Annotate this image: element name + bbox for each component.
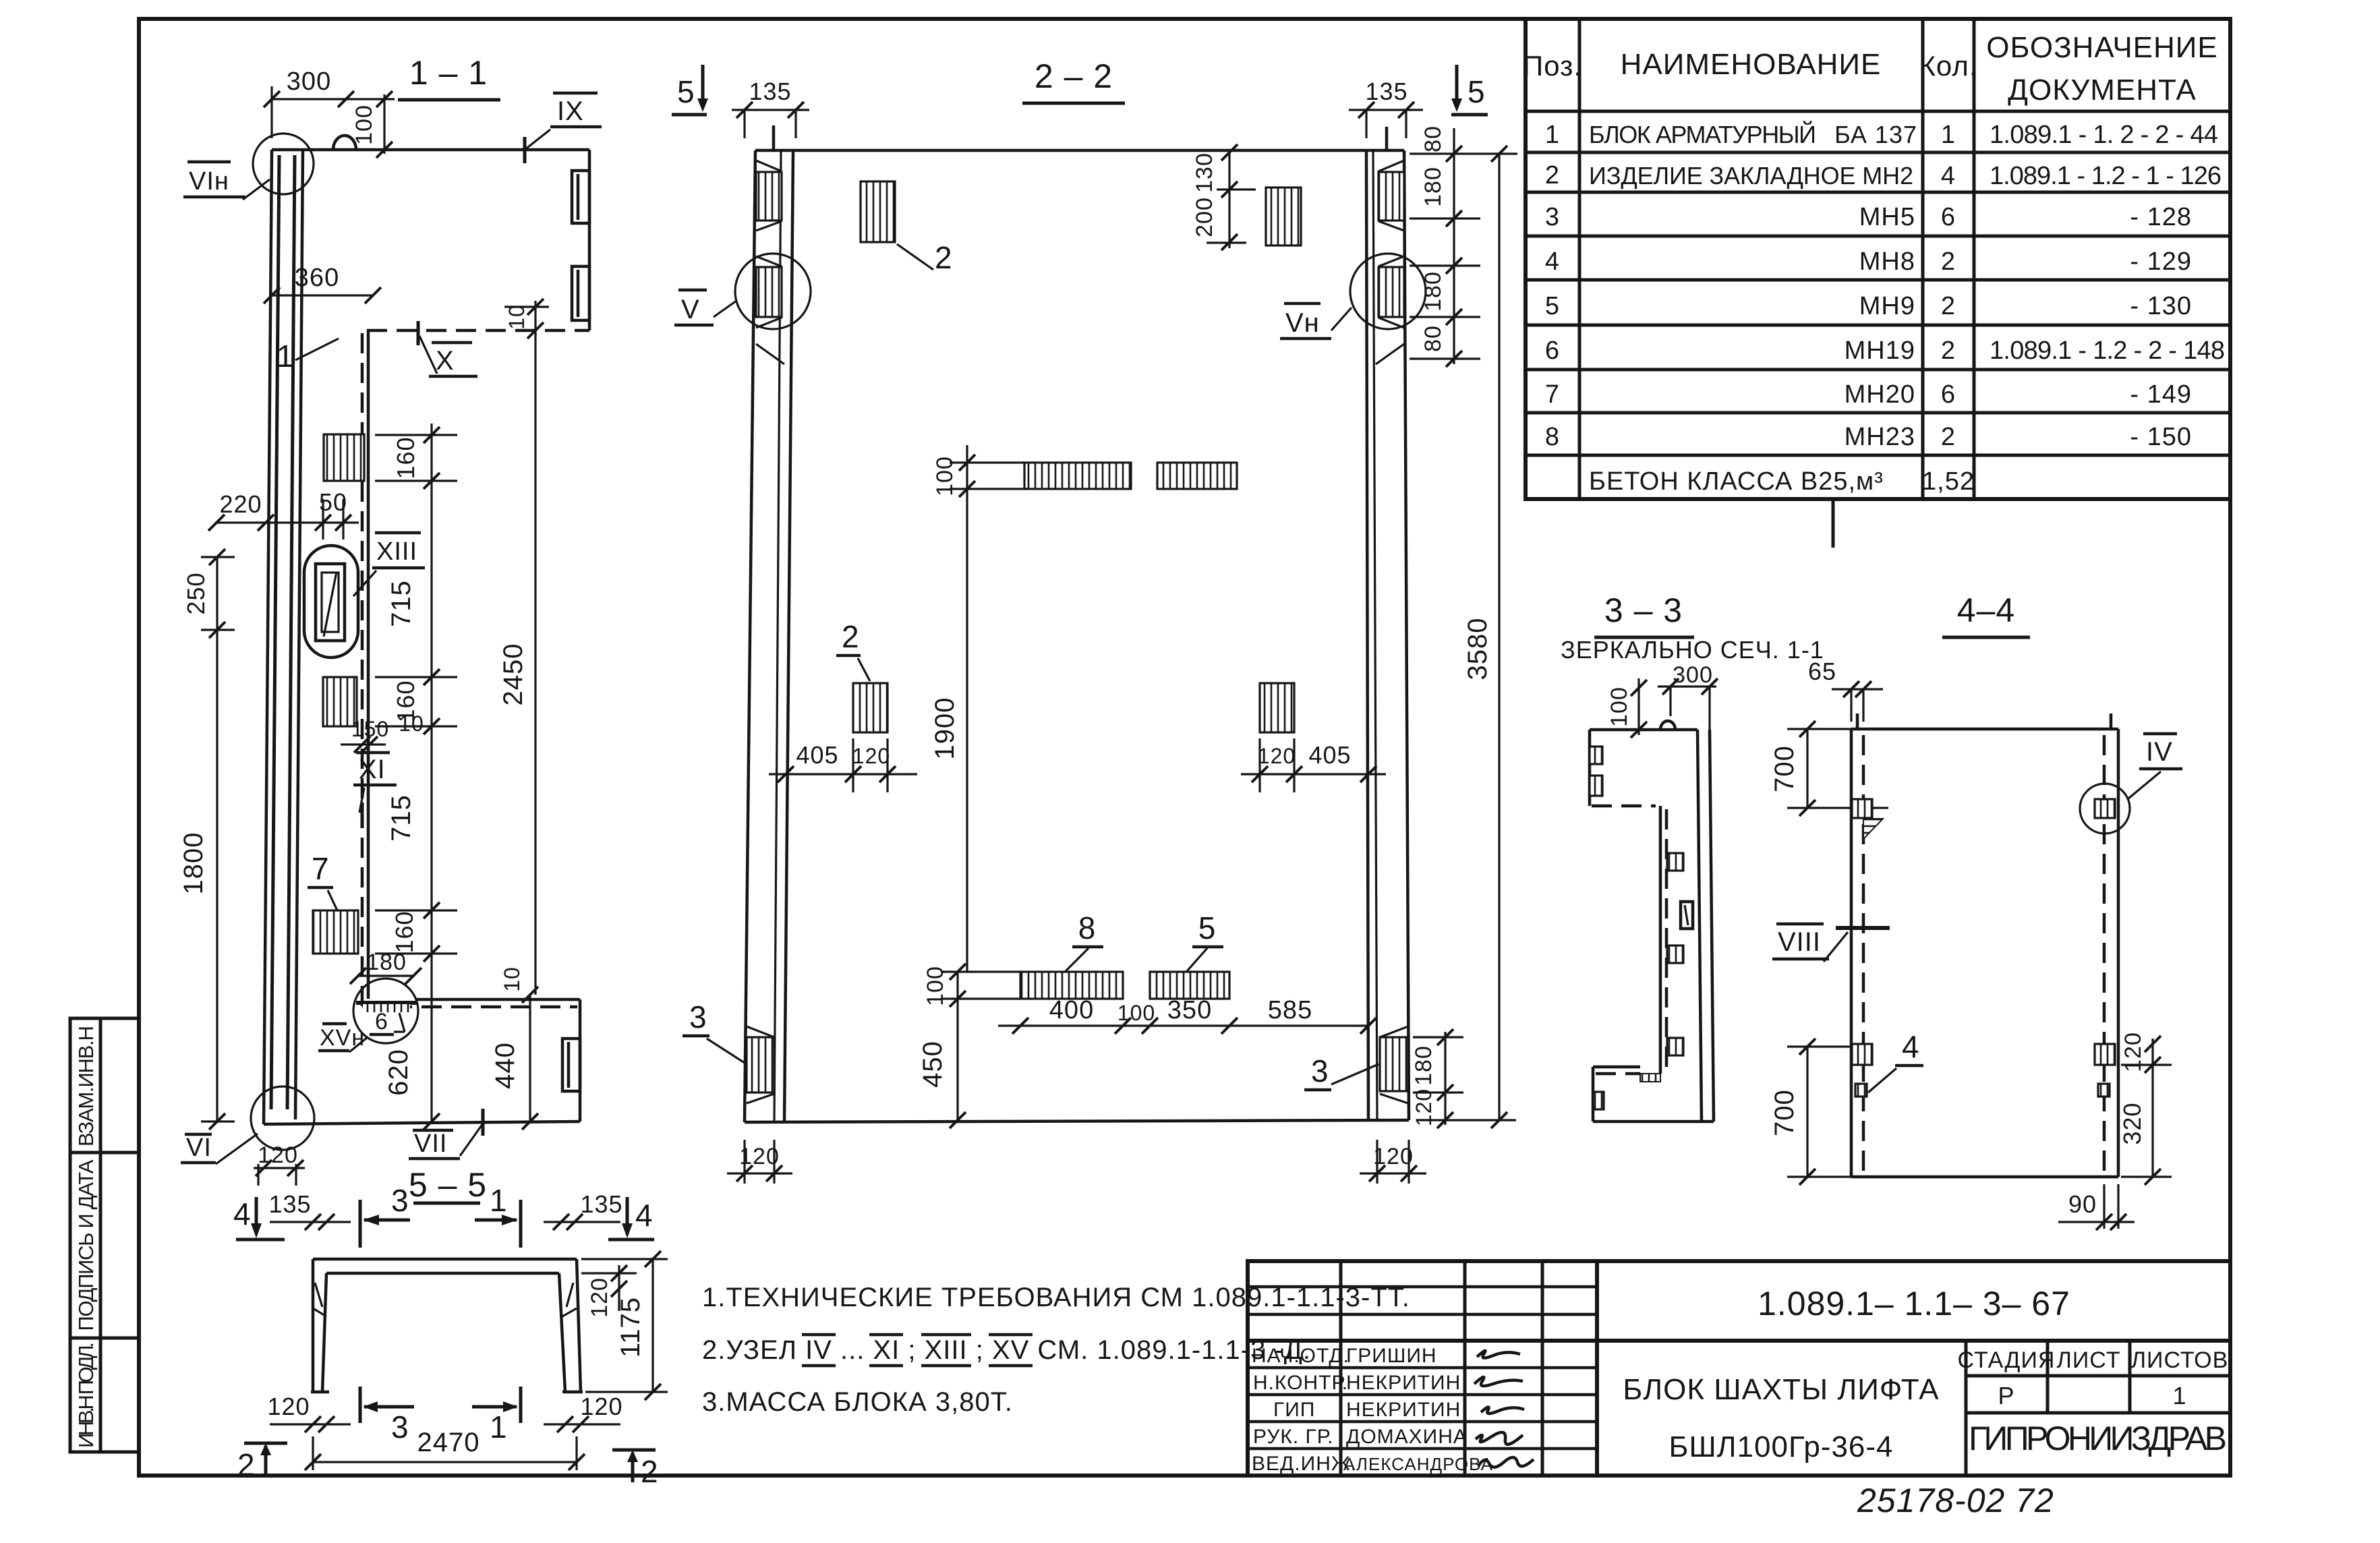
node label IV <box>2143 732 2177 736</box>
groove 3 bottom right <box>562 1039 580 1091</box>
svg-text:80: 80 <box>1420 325 1446 352</box>
svg-text:1900: 1900 <box>930 697 960 760</box>
svg-text:2: 2 <box>935 240 953 275</box>
svg-text:НАИМЕНОВАНИЕ: НАИМЕНОВАНИЕ <box>1621 48 1882 81</box>
svg-text:8: 8 <box>1545 423 1560 451</box>
svg-text:2450: 2450 <box>498 643 528 706</box>
svg-text:1: 1 <box>490 1409 508 1445</box>
step dashed vertical <box>1665 809 1668 1074</box>
svg-text:ИЗДЕЛИЕ ЗАКЛАДНОЕ МН2: ИЗДЕЛИЕ ЗАКЛАДНОЕ МН2 <box>1589 162 1914 190</box>
node label Vн <box>1284 302 1320 305</box>
svg-text:ВЗАМ.ИНВ.Н: ВЗАМ.ИНВ.Н <box>74 1025 98 1146</box>
svg-text:1800: 1800 <box>179 832 208 895</box>
svg-text:6: 6 <box>375 1009 388 1035</box>
svg-text:XIII: XIII <box>376 537 417 566</box>
svg-text:7: 7 <box>1545 380 1560 409</box>
section mark 1 bottom <box>519 1387 523 1423</box>
svg-text:Р: Р <box>1998 1382 2014 1409</box>
right leg bottom <box>562 1391 583 1394</box>
dim 700 bottom <box>1806 1047 1808 1177</box>
rebar pin right <box>2110 714 2113 728</box>
step solid vertical <box>1659 806 1662 1074</box>
svg-text:700: 700 <box>1770 1089 1799 1136</box>
right wall outer line <box>1404 150 1409 1120</box>
node label XVн <box>322 1022 347 1026</box>
svg-text:180: 180 <box>1411 1045 1436 1086</box>
dim 250 <box>216 557 218 630</box>
dim 135 left <box>732 109 809 111</box>
svg-text:- 130: - 130 <box>2130 292 2192 320</box>
svg-text:АЛЕКСАНДРОВА: АЛЕКСАНДРОВА <box>1343 1454 1493 1474</box>
svg-text:ПОДПИСЬ И ДАТА: ПОДПИСЬ И ДАТА <box>74 1159 98 1331</box>
svg-text:440: 440 <box>490 1042 520 1089</box>
hidden face dashed top <box>367 329 589 332</box>
svg-text:БШЛ100Гр-36-4: БШЛ100Гр-36-4 <box>1668 1430 1893 1463</box>
dim 100 <box>1637 678 1639 735</box>
rebar pin left <box>1856 714 1859 728</box>
svg-text:65: 65 <box>1808 658 1836 685</box>
svg-text:3: 3 <box>391 1183 409 1218</box>
svg-text:3 – 3: 3 – 3 <box>1604 591 1683 629</box>
node label VII <box>413 1129 453 1132</box>
dim 120 405 right <box>1241 773 1386 775</box>
dim 65 <box>1832 688 1883 690</box>
section mark 2 bottom left <box>244 1442 287 1445</box>
svg-text:2: 2 <box>1941 337 1956 365</box>
svg-text:405: 405 <box>796 741 838 769</box>
svg-text:100: 100 <box>923 966 948 1006</box>
svg-text:1: 1 <box>2172 1382 2186 1409</box>
svg-text:6: 6 <box>1545 337 1560 365</box>
svg-text:2: 2 <box>1941 248 1956 276</box>
svg-text:1: 1 <box>1545 121 1560 149</box>
svg-text:450: 450 <box>918 1041 948 1088</box>
left wall bottom plate <box>747 1037 774 1093</box>
right leg inner <box>559 1273 565 1392</box>
dim 120 under left wall <box>743 1140 745 1184</box>
bottom flange hatch strip <box>1640 1074 1660 1082</box>
dim 360 <box>272 294 373 296</box>
svg-text:2 – 2: 2 – 2 <box>1035 57 1113 95</box>
hidden dashed bottom <box>362 1006 577 1009</box>
svg-text:5: 5 <box>1468 74 1486 109</box>
svg-text:220: 220 <box>219 490 262 518</box>
svg-text:1.ТЕХНИЧЕСКИЕ ТРЕБОВАНИЯ СМ 1.: 1.ТЕХНИЧЕСКИЕ ТРЕБОВАНИЯ СМ 1.089.1-1.1-… <box>702 1283 1410 1312</box>
embedded plate right middle <box>1260 683 1294 732</box>
svg-text:180: 180 <box>1420 167 1446 207</box>
svg-text:120: 120 <box>258 1142 298 1168</box>
svg-text:100: 100 <box>1606 687 1632 727</box>
node label X <box>432 341 472 345</box>
svg-text:3580: 3580 <box>1463 618 1492 680</box>
dim 90 bottom <box>2103 1184 2105 1229</box>
svg-text:120: 120 <box>852 744 890 768</box>
dim 120 bottom left <box>270 1423 351 1425</box>
dim 100 upper <box>950 461 1024 463</box>
svg-text:ГИПРОНИИЗДРАВ: ГИПРОНИИЗДРАВ <box>1969 1420 2228 1457</box>
svg-text:XI: XI <box>359 755 386 784</box>
svg-text:120: 120 <box>1373 1144 1414 1169</box>
groove 2 left edge <box>1590 776 1602 796</box>
groove 1 left edge <box>1590 747 1602 764</box>
dim 120 bottom right <box>544 1423 620 1425</box>
svg-text:1.089.1 - 1. 2 - 2 - 44: 1.089.1 - 1. 2 - 2 - 44 <box>1990 121 2219 149</box>
svg-text:3: 3 <box>1545 203 1560 231</box>
dim 100 vertical <box>346 98 395 100</box>
upper anchor strips <box>1024 463 1131 489</box>
right edge of top beam <box>588 150 591 330</box>
svg-text:3: 3 <box>391 1409 409 1445</box>
top face line <box>1851 728 2118 731</box>
svg-text:2: 2 <box>641 1454 659 1489</box>
svg-text:80: 80 <box>1420 125 1446 152</box>
dim 300 <box>272 98 346 100</box>
svg-text:2470: 2470 <box>417 1428 480 1457</box>
dim 135 top right <box>544 1221 620 1223</box>
title block bottom right <box>1248 1261 2230 1476</box>
svg-text:2.УЗЕЛ IV ... XI ; XIII ; XV С: 2.УЗЕЛ IV ... XI ; XIII ; XV СМ. 1.089.1… <box>702 1335 1311 1365</box>
left wall plate МН circled <box>756 267 782 317</box>
left wall rebar pin <box>772 125 776 150</box>
svg-text:1: 1 <box>1941 121 1956 149</box>
svg-text:НЕКРИТИН: НЕКРИТИН <box>1346 1372 1461 1394</box>
dim 700 top <box>1806 729 1808 808</box>
embedded plate top right <box>1266 187 1301 245</box>
embedded plate block 2 <box>323 677 357 726</box>
dim 200/130 <box>1228 150 1230 248</box>
svg-text:1.089.1 - 1.2 - 2 - 148: 1.089.1 - 1.2 - 2 - 148 <box>1990 337 2226 365</box>
plate on left wall bottom <box>1852 1044 1872 1065</box>
svg-text:120: 120 <box>267 1393 310 1420</box>
right wall inner line <box>1366 150 1368 1120</box>
right wall plate МН circled <box>1378 267 1404 317</box>
svg-text:1 – 1: 1 – 1 <box>409 54 488 92</box>
left edge top beam <box>1588 730 1592 806</box>
top face line <box>755 149 1404 152</box>
svg-text:МН5: МН5 <box>1859 203 1915 231</box>
svg-text:1175: 1175 <box>616 1297 645 1358</box>
svg-text:620: 620 <box>384 1049 413 1096</box>
left leg outer <box>312 1259 315 1392</box>
svg-text:350: 350 <box>1167 996 1212 1024</box>
right wall bottom plate <box>1380 1037 1408 1091</box>
left wall outer line <box>264 150 272 1124</box>
svg-text:4: 4 <box>1902 1029 1920 1064</box>
hidden dashed vertical <box>361 333 364 1009</box>
beam hidden bottom dashed <box>1592 805 1656 808</box>
svg-text:1,52: 1,52 <box>1922 467 1975 496</box>
svg-text:135: 135 <box>268 1190 311 1218</box>
right wall plate МН top <box>1378 172 1404 221</box>
node label XI <box>356 751 390 755</box>
left wall plate МН top <box>756 172 782 221</box>
svg-text:ИНВ.Н ПОДЛ.: ИНВ.Н ПОДЛ. <box>74 1341 98 1448</box>
section mark 1 top <box>519 1200 523 1248</box>
svg-text:Кол.: Кол. <box>1919 50 1977 82</box>
top-left detail circle <box>253 134 314 194</box>
left wall dashed line <box>1862 735 1865 1173</box>
node label XIII <box>375 531 421 535</box>
svg-text:10: 10 <box>504 304 529 330</box>
node label VIн <box>187 161 231 164</box>
detail circle Vн <box>1350 254 1426 329</box>
svg-text:ДОКУМЕНТА: ДОКУМЕНТА <box>2008 74 2197 107</box>
section mark 3 bottom <box>359 1387 362 1423</box>
notes <box>702 1283 1410 1417</box>
section mark 2 bottom right <box>612 1449 656 1452</box>
dim 180 120 bottom right <box>1444 1032 1446 1125</box>
dim 1800 <box>216 630 218 1122</box>
svg-text:135: 135 <box>749 78 791 105</box>
svg-text:100: 100 <box>1118 1001 1155 1025</box>
svg-text:135: 135 <box>1365 78 1407 105</box>
svg-text:- 128: - 128 <box>2130 203 2192 231</box>
svg-text:120: 120 <box>1258 744 1296 768</box>
left leg chamfer mark <box>315 1283 322 1307</box>
top face line <box>272 148 589 152</box>
svg-text:715: 715 <box>386 580 416 627</box>
svg-text:IV: IV <box>2146 737 2173 767</box>
svg-text:1: 1 <box>277 339 295 374</box>
svg-text:4–4: 4–4 <box>1957 591 2015 629</box>
left wall outer line <box>745 150 755 1122</box>
bottom face line <box>1851 1175 2118 1179</box>
svg-text:МН8: МН8 <box>1859 248 1915 276</box>
svg-text:320: 320 <box>2118 1102 2146 1144</box>
svg-text:4: 4 <box>1545 248 1560 276</box>
svg-text:X: X <box>436 346 455 376</box>
svg-text:2: 2 <box>1545 161 1560 190</box>
svg-text:- 150: - 150 <box>2130 423 2192 451</box>
svg-text:XVн: XVн <box>320 1025 365 1051</box>
svg-text:МН9: МН9 <box>1859 292 1915 320</box>
svg-text:ГИП: ГИП <box>1273 1399 1315 1421</box>
dim 120 320 right <box>2151 1039 2153 1177</box>
embedded plate 2 middle <box>853 683 888 732</box>
right wall middle line <box>1373 150 1377 1120</box>
detail circle XVn with plate 6 <box>353 979 418 1043</box>
dim 120 right small <box>618 1265 620 1311</box>
right wall inner line <box>1697 730 1702 1122</box>
left wall inner line <box>295 150 303 1119</box>
bottom face line <box>745 1120 1409 1122</box>
svg-text:VI: VI <box>186 1134 212 1162</box>
svg-text:2: 2 <box>1941 292 1956 320</box>
dim chain 160/715 <box>430 424 432 1122</box>
dim 450 <box>950 1112 966 1128</box>
svg-text:4: 4 <box>233 1196 252 1231</box>
left wall middle line <box>774 150 781 1122</box>
svg-text:90: 90 <box>2068 1190 2097 1218</box>
svg-text:715: 715 <box>386 794 416 842</box>
svg-text:РУК. ГР.: РУК. ГР. <box>1253 1426 1333 1448</box>
dim 300 <box>1658 685 1716 687</box>
channel outer top <box>313 1258 577 1261</box>
bottom-left detail circle <box>251 1086 314 1150</box>
svg-text:4: 4 <box>635 1198 654 1233</box>
svg-text:700: 700 <box>1770 745 1799 792</box>
groove 1 on right edge <box>572 171 589 223</box>
left wall rail line a <box>271 155 279 1109</box>
top face line <box>1590 728 1697 732</box>
svg-text:ГРИШИН: ГРИШИН <box>1346 1345 1437 1367</box>
bottom beam top face <box>415 998 580 1001</box>
slot XIII mirrored <box>1681 902 1693 929</box>
detail circle V <box>735 254 811 329</box>
groove 2 on right edge <box>572 266 589 320</box>
svg-text:6: 6 <box>1941 203 1956 231</box>
section mark 4 top right <box>626 1197 629 1231</box>
svg-text:Поз.: Поз. <box>1523 50 1582 82</box>
svg-text:IX: IX <box>557 96 584 126</box>
right wall solid line <box>2117 729 2120 1177</box>
dim 10 top <box>504 305 549 308</box>
embedded plate 2 top <box>861 181 895 242</box>
step plate 1 <box>1667 853 1683 871</box>
svg-text:300: 300 <box>287 67 331 96</box>
svg-text:120: 120 <box>739 1144 780 1169</box>
svg-text:400: 400 <box>1049 996 1094 1024</box>
plate on right wall bottom <box>2095 1044 2115 1065</box>
dim 120 under right wall <box>1376 1140 1378 1184</box>
svg-text:5: 5 <box>1545 292 1560 320</box>
dim 3580 <box>1498 154 1500 1120</box>
dim 220 and 50 <box>215 521 359 523</box>
plate on left wall top <box>1852 799 1872 818</box>
dim 180 bottom <box>358 974 413 977</box>
svg-text:ВЕД.ИНЖ.: ВЕД.ИНЖ. <box>1252 1453 1357 1475</box>
svg-text:2: 2 <box>237 1447 256 1482</box>
right leg chamfer mark <box>567 1283 573 1307</box>
svg-text:160: 160 <box>390 910 418 953</box>
stadium slot XIII <box>304 546 358 658</box>
bottom face line <box>264 1122 580 1124</box>
right wall rebar pin <box>1385 127 1389 150</box>
svg-text:VIн: VIн <box>189 167 229 196</box>
bottom beam right edge <box>579 999 582 1122</box>
svg-text:3: 3 <box>1311 1053 1329 1088</box>
bottom flange top face <box>1593 1066 1640 1069</box>
svg-text:120: 120 <box>580 1393 622 1420</box>
svg-text:7: 7 <box>312 851 330 886</box>
svg-text:- 149: - 149 <box>2130 380 2192 409</box>
svg-text:3: 3 <box>689 999 707 1035</box>
dim 100 lower <box>941 970 1020 972</box>
svg-text:120: 120 <box>2120 1032 2146 1072</box>
dim 135 top left <box>270 1221 351 1223</box>
svg-text:2: 2 <box>842 619 860 654</box>
svg-text:VIII: VIII <box>1778 927 1821 957</box>
left wall solid line <box>1850 729 1853 1177</box>
step plate 2 <box>1667 945 1683 963</box>
svg-text:1.089.1– 1.1– 3– 67: 1.089.1– 1.1– 3– 67 <box>1758 1285 2070 1322</box>
left leg bottom <box>311 1391 329 1394</box>
svg-text:250: 250 <box>182 572 210 614</box>
node label IX <box>553 92 598 95</box>
svg-text:360: 360 <box>295 264 339 292</box>
right wall outer line <box>1710 730 1714 1122</box>
svg-text:4: 4 <box>1941 162 1956 190</box>
dims 400 100 350 585 <box>998 1024 1368 1026</box>
dim 1175 <box>651 1259 654 1392</box>
svg-text:180: 180 <box>366 950 407 975</box>
plate on right wall top circled <box>2095 799 2115 818</box>
bottom face line <box>1593 1120 1714 1124</box>
svg-text:100: 100 <box>932 456 958 496</box>
svg-text:V: V <box>681 295 700 324</box>
svg-text:МН20: МН20 <box>1845 380 1915 409</box>
svg-text:ДОМАХИНА: ДОМАХИНА <box>1346 1426 1468 1448</box>
svg-text:180: 180 <box>1420 271 1446 312</box>
svg-text:БЛОК АРМАТУРНЫЙ: БЛОК АРМАТУРНЫЙ <box>1589 120 1817 148</box>
left wall rail line b <box>287 155 295 1109</box>
dim 1900 <box>966 445 968 972</box>
svg-text:НЕКРИТИН: НЕКРИТИН <box>1346 1399 1461 1421</box>
svg-text:585: 585 <box>1268 996 1312 1024</box>
svg-text:БЛОК ШАХТЫ ЛИФТА: БЛОК ШАХТЫ ЛИФТА <box>1623 1373 1939 1406</box>
lower anchor strips 8 and 5 <box>1020 972 1123 999</box>
embedded plate block 1 <box>324 434 364 481</box>
left leg inner <box>322 1273 326 1392</box>
svg-text:200: 200 <box>1192 197 1217 237</box>
svg-text:Н.КОНТР.: Н.КОНТР. <box>1253 1372 1348 1394</box>
dim 135 right <box>1349 109 1423 111</box>
parts table top right <box>1523 19 2230 548</box>
bottom flange left edge <box>1592 1067 1595 1122</box>
dim 2450 <box>534 330 536 995</box>
lifting loop bump <box>1660 721 1675 730</box>
svg-text:БЕТОН КЛАССА В25,м³: БЕТОН КЛАССА В25,м³ <box>1589 467 1884 496</box>
embedded plate block 7 <box>313 910 358 954</box>
svg-text:300: 300 <box>1673 662 1713 688</box>
svg-text:МН19: МН19 <box>1845 337 1915 365</box>
section mark 3 top <box>359 1200 362 1248</box>
svg-text:10: 10 <box>500 966 524 992</box>
svg-text:160: 160 <box>392 436 419 479</box>
right wall dashed line <box>2103 735 2106 1173</box>
left stamp strip <box>70 1018 139 1452</box>
inner void left solid edge <box>367 330 370 999</box>
svg-text:8: 8 <box>1078 910 1097 945</box>
svg-text:1: 1 <box>490 1183 508 1218</box>
svg-text:130: 130 <box>1192 152 1217 193</box>
svg-text:5 – 5: 5 – 5 <box>409 1166 487 1204</box>
right leg outer <box>577 1259 581 1392</box>
svg-text:3.МАССА БЛОКА 3,80Т.: 3.МАССА БЛОКА 3,80Т. <box>702 1387 1013 1417</box>
svg-text:МН23: МН23 <box>1845 423 1915 451</box>
svg-text:6: 6 <box>1941 380 1956 409</box>
svg-text:100: 100 <box>351 105 377 145</box>
svg-text:2: 2 <box>1941 423 1956 451</box>
svg-text:1.089.1 - 1.2 - 1 - 126: 1.089.1 - 1.2 - 1 - 126 <box>1990 162 2222 190</box>
lifting loop bump <box>333 136 356 150</box>
dim 120 bottom left <box>254 1167 305 1169</box>
svg-text:СТАДИЯ: СТАДИЯ <box>1958 1347 2056 1373</box>
svg-text:5: 5 <box>677 74 695 109</box>
svg-text:БА 137: БА 137 <box>1834 121 1917 148</box>
svg-text:405: 405 <box>1308 741 1351 769</box>
dim 2470 <box>313 1461 577 1463</box>
svg-text:ЛИСТОВ: ЛИСТОВ <box>2131 1347 2229 1373</box>
svg-text:5: 5 <box>1198 910 1217 945</box>
svg-text:25178-02 72: 25178-02 72 <box>1857 1482 2054 1519</box>
channel inner top <box>326 1272 559 1275</box>
svg-text:ОБОЗНАЧЕНИЕ: ОБОЗНАЧЕНИЕ <box>1986 31 2218 64</box>
node label VIII <box>1776 923 1824 926</box>
node label V <box>678 289 707 292</box>
dim 440 <box>529 995 531 1122</box>
svg-text:- 129: - 129 <box>2130 248 2192 276</box>
